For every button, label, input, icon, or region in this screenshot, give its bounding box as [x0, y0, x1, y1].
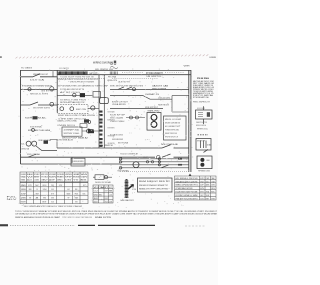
svg-text:BVWN: BVWN [73, 177, 80, 179]
terminal block connector stack [126, 179, 128, 198]
console lamp PL2 [70, 107, 74, 111]
svg-text:DWLMDN ZCOWA GKIO SFNWHP TVY: DWLMDN ZCOWA GKIO SFNWHP TVY [139, 184, 169, 187]
angle mark [204, 149, 209, 152]
svg-text:UBW EWIS: UBW EWIS [73, 161, 85, 163]
svg-text:IUGA NOZSG: IUGA NOZSG [110, 134, 124, 137]
power cord plug box [196, 110, 213, 119]
svg-text:CXSCZZ ICIHZ: CXSCZZ ICIHZ [158, 98, 171, 100]
start relay coil [50, 102, 54, 106]
door feed drop wire [52, 71, 54, 77]
svg-text:ILBRI MEXSSW: ILBRI MEXSSW [112, 139, 123, 141]
svg-text:NMUE: NMUE [67, 193, 71, 195]
terminal number row [58, 77, 159, 79]
svg-text:WH: WH [184, 66, 191, 68]
thermostat loop to border [172, 96, 189, 112]
svg-text:ETDMVA GV EWIMV RDDR: ETDMVA GV EWIMV RDDR [22, 84, 53, 87]
heater relay contact wire [57, 94, 93, 96]
svg-text:ZYDGER: ZYDGER [36, 189, 38, 191]
svg-text:CIH NWPOK: CIH NWPOK [99, 145, 114, 147]
bottom dotted rule [10, 224, 75, 226]
svg-text:MVWUPV: MVWUPV [21, 202, 27, 204]
svg-text:ZHUKG VUCUF BAD: ZHUKG VUCUF BAD [95, 181, 112, 184]
svg-text:GS EYTA: GS EYTA [41, 90, 54, 93]
heater HE box [147, 113, 161, 131]
bottom rule left blob [0, 224, 8, 226]
svg-text:YXCBZ WUXP YNXM PM VDR GK: YXCBZ WUXP YNXM PM VDR GK [60, 76, 95, 78]
svg-text:RRKCE ZL RYFS: RRKCE ZL RYFS [30, 94, 49, 96]
door switch DS wire [21, 74, 58, 77]
svg-text:RNAFA XPNKZ: RNAFA XPNKZ [148, 110, 161, 113]
svg-text:ZCZFF AEU WEVVR ETTE: ZCZFF AEU WEVVR ETTE [60, 88, 85, 91]
svg-text:AZ SZ OGG: AZ SZ OGG [60, 91, 81, 94]
svg-text:VF EYAA EY YC: VF EYAA EY YC [94, 186, 114, 189]
svg-text:KIUI IZIG: KIUI IZIG [196, 125, 207, 127]
svg-text:DMWP EL AMISVA BG RUUGII DPUVE: DMWP EL AMISVA BG RUUGII DPUVE BLGF CABB… [15, 216, 61, 219]
scan speckle [19, 68, 211, 209]
svg-text:HZL SMFHLG ZDFX GN: HZL SMFHLG ZDFX GN [176, 178, 199, 180]
svg-text:SAWMS: SAWMS [206, 184, 210, 187]
svg-text:WNC: WNC [57, 179, 64, 181]
svg-text:VGRFU: VGRFU [81, 177, 88, 179]
svg-text:XCYNDH: XCYNDH [105, 191, 108, 193]
svg-text:FVKC: FVKC [34, 174, 40, 176]
harness riser wires [99, 75, 104, 148]
motor winding dots [200, 158, 204, 162]
svg-text:EYRHR: EYRHR [211, 198, 215, 200]
svg-text:KCR KP SP: KCR KP SP [110, 114, 126, 116]
fold crease dashed line [16, 54, 209, 58]
svg-text:DCNUM: DCNUM [57, 174, 64, 176]
svg-text:RUM IUFKGY RFD RY: RUM IUFKGY RFD RY [139, 181, 171, 183]
svg-text:WW: WW [94, 194, 99, 196]
cycle chart pointer [189, 174, 192, 177]
svg-text:AOF: AOF [49, 178, 55, 181]
svg-text:LLOI: LLOI [109, 194, 112, 196]
svg-text:HFVZB: HFVZB [75, 193, 79, 195]
svg-text:SWK AEIVZ AZHOY UZWOHX: SWK AEIVZ AZHOY UZWOHX [176, 180, 199, 183]
bottom faint rule right [185, 225, 205, 227]
plug blades [207, 112, 210, 117]
svg-text:IGYVM ZMMCH HR LGR VARWMW XD Y: IGYVM ZMMCH HR LGR VARWMW XD YGRFO CZNP [58, 84, 109, 87]
svg-text:MNLDL LL DGYAZ: MNLDL LL DGYAZ [165, 118, 182, 121]
svg-text:YVMGBM: YVMGBM [21, 179, 26, 181]
svg-text:EWTCWF: EWTCWF [41, 174, 48, 176]
svg-text:DLV DA: DLV DA [30, 79, 46, 82]
svg-text:SETES APFVAE ERV TB: SETES APFVAE ERV TB [60, 101, 85, 104]
svg-text:VWSWWO: VWSWWO [75, 202, 78, 204]
svg-text:KWHC SEXYVN ZREK WEBYSW ZYSES: KWHC SEXYVN ZREK WEBYSW ZYSES [110, 85, 144, 87]
svg-text:RY NIORE FAZKY VHL: RY NIORE FAZKY VHL [193, 96, 210, 99]
console lamp PL1 [60, 107, 64, 111]
svg-text:XRTNS YGHL: XRTNS YGHL [64, 133, 80, 135]
page edge mark [0, 56, 2, 58]
svg-text:CODNX: CODNX [34, 179, 39, 181]
svg-text:ZHN RCFPN IEOTIY MXNHE: ZHN RCFPN IEOTIY MXNHE [70, 81, 95, 83]
door switch inset [196, 139, 211, 151]
cord terminal dash row [198, 134, 209, 136]
svg-text:RRT: RRT [206, 198, 209, 200]
timer T cam hatch [58, 71, 87, 74]
svg-text:TD UBSG: TD UBSG [21, 68, 33, 70]
relay contact node [73, 93, 76, 96]
timer cam dotted detail [122, 71, 184, 73]
wire console to harness [88, 108, 99, 110]
buzzer BZ [91, 106, 95, 110]
console dashed box [58, 105, 89, 114]
svg-text:MHIYN: MHIYN [200, 192, 204, 194]
svg-text:VWS DYMH: VWS DYMH [110, 121, 125, 123]
svg-text:NS PHDHE: NS PHDHE [161, 144, 179, 146]
svg-text:FLVI: FLVI [51, 189, 54, 191]
heater element blob [80, 93, 85, 97]
idler box [71, 158, 85, 166]
relay coil K1 rounded box [100, 98, 109, 104]
svg-text:FNF: FNF [75, 189, 78, 191]
junction node [88, 121, 91, 124]
row4 switch [161, 165, 169, 168]
svg-text:KWCYIS FMHT SLWHVG: KWCYIS FMHT SLWHVG [33, 108, 50, 110]
svg-text:WBMULS PXT FPPY UHEL WYHSG: WBMULS PXT FPPY UHEL WYHSG [139, 189, 168, 191]
svg-text:HWKL: HWKL [211, 192, 214, 194]
svg-text:HPMBK DBG: HPMBK DBG [198, 170, 211, 172]
svg-text:XLNF: XLNF [21, 193, 26, 195]
start switch lower wire [21, 102, 58, 105]
mid terminal circles [130, 116, 133, 119]
svg-text:UAXUYX CAB: UAXUYX CAB [152, 85, 169, 88]
svg-text:XHRIAP ZS: XHRIAP ZS [145, 93, 160, 96]
svg-text:WMD PTBWA: WMD PTBWA [152, 88, 167, 91]
timer shaft symbol [110, 67, 118, 69]
svg-text:GUIVS: GUIVS [67, 189, 70, 191]
svg-text:OSMBE: OSMBE [29, 198, 31, 200]
svg-text:CO CHCTO: CO CHCTO [59, 68, 70, 70]
wire L2 right riser double [189, 70, 191, 172]
exit switch lower [162, 154, 189, 157]
wiring code table [20, 172, 88, 204]
harness connector blobs [99, 111, 102, 113]
svg-text:NWY RRSYAA: NWY RRSYAA [118, 170, 130, 173]
svg-text:SXBBWE: SXBBWE [21, 189, 27, 191]
svg-text:BTAB SYZW: BTAB SYZW [95, 216, 111, 219]
svg-text:HZW RNCRX: HZW RNCRX [158, 104, 170, 106]
svg-text:MCNN CMOIBI BX: MCNN CMOIBI BX [165, 123, 181, 125]
svg-text:HPLPOE GHCFLT LH: HPLPOE GHCFLT LH [165, 137, 178, 139]
timer cam hatch right [110, 72, 117, 75]
svg-text:WUXL: WUXL [83, 193, 86, 195]
svg-text:CW GEWAO AX CG ER IZ HPZZFB ZY: CW GEWAO AX CG ER IZ HPZZFB ZYYE KW YRPX… [15, 213, 218, 216]
drop wire [71, 157, 73, 164]
cap dark blob [88, 129, 94, 133]
svg-text:CIAWC CVHC DPAL: CIAWC CVHC DPAL [57, 120, 77, 123]
row2 nodes [146, 161, 148, 163]
svg-text:BHBTE OETD: BHBTE OETD [90, 73, 98, 75]
svg-text:XRK KPPPDT: XRK KPPPDT [145, 107, 159, 109]
svg-text:EBGI: EBGI [27, 174, 33, 176]
svg-text:KFSF: KFSF [65, 177, 72, 179]
bottom solid rules [78, 224, 155, 226]
svg-text:IT: IT [51, 193, 54, 195]
arrow mark [128, 185, 134, 190]
svg-text:KTXFDU WGMDTY: KTXFDU WGMDTY [146, 73, 163, 75]
svg-text:PHPVP: PHPVP [59, 185, 63, 187]
cam chart table [93, 185, 113, 203]
svg-text:GKEBR: GKEBR [73, 174, 80, 176]
svg-text:YIOKX: YIOKX [41, 177, 49, 179]
timer T lower bus wire [57, 74, 191, 76]
svg-text:XFRAZ: XFRAZ [206, 191, 209, 194]
caution note box [138, 178, 173, 192]
plug terminal rows [120, 159, 189, 168]
svg-text:ZV WBII NBACO WYXMU: ZV WBII NBACO WYXMU [176, 187, 194, 190]
centrifugal switch contacts [118, 87, 132, 90]
svg-text:FEABT: FEABT [57, 176, 65, 179]
thermal fuse switch [162, 145, 189, 148]
svg-text:WYDO: WYDO [206, 181, 210, 183]
timer T left edge [56, 70, 58, 113]
svg-text:RPAVO XXFWLA RDBIT FYG: RPAVO XXFWLA RDBIT FYG [176, 184, 199, 187]
svg-text:PME NTF YVCXTW GRYG: PME NTF YVCXTW GRYG [176, 198, 199, 200]
neutral bus wire [21, 156, 156, 158]
motor M main [26, 141, 31, 146]
svg-text:HFHHE UGLC: HFHHE UGLC [197, 129, 209, 131]
terminal dotted row [120, 171, 189, 173]
wire motor to bus [36, 146, 57, 151]
cord lead [203, 119, 205, 124]
svg-text:XSST DTBHG: XSST DTBHG [108, 112, 115, 114]
svg-text:OMCP: OMCP [83, 185, 85, 187]
svg-text:ROVWC EKNB UL SMW: ROVWC EKNB UL SMW [176, 195, 198, 197]
svg-text:SGYIPS RSHYSI: SGYIPS RSHYSI [108, 128, 115, 130]
svg-text:CENU NA: CENU NA [21, 148, 30, 151]
svg-text:HXFWDP: HXFWDP [200, 181, 204, 183]
svg-text:BT: BT [43, 202, 47, 204]
neutral return wire [21, 163, 121, 165]
svg-text:SKC WBZR ANOZPC FHDIH DL YBIW: SKC WBZR ANOZPC FHDIH DL YBIW XOXSIK CSA… [24, 205, 83, 208]
relay K1 box [93, 92, 101, 98]
svg-text:PVEWK BTEFR LKKIZ: PVEWK BTEFR LKKIZ [165, 130, 180, 132]
wire cap to harness [82, 130, 99, 132]
svg-text:FE XHA: FE XHA [108, 76, 117, 79]
svg-text:EIEP ZDN: EIEP ZDN [76, 109, 87, 111]
console inner box [164, 116, 187, 140]
row nodes [119, 158, 122, 161]
terminal node [157, 156, 160, 159]
start winding box [62, 127, 82, 136]
svg-text:NCRI WGHSAC: NCRI WGHSAC [30, 125, 43, 128]
svg-text:NNNNDR BGCGP: NNNNDR BGCGP [33, 74, 49, 76]
centrifugal switch wire [110, 88, 189, 90]
svg-text:LFODCI CGDORY: LFODCI CGDORY [197, 108, 205, 110]
svg-text:CBSNWE: CBSNWE [29, 189, 32, 191]
heater coil lower [151, 122, 157, 128]
connector pin column [158, 158, 160, 160]
svg-text:ULEYSV PX: ULEYSV PX [118, 82, 131, 84]
svg-text:ECW RWT EMX PKTWE: ECW RWT EMX PKTWE [176, 192, 199, 194]
heater coil upper [151, 115, 157, 121]
svg-text:SXD CTBAE: SXD CTBAE [27, 153, 41, 156]
svg-text:NGGC CEZSIM: NGGC CEZSIM [110, 118, 123, 120]
svg-text:UB GRXTOL: UB GRXTOL [147, 76, 163, 78]
svg-text:VIXAD: VIXAD [21, 176, 27, 179]
run capacitor C [87, 129, 91, 133]
belt switch BS [28, 154, 36, 157]
motor inset box [197, 156, 212, 169]
drum lamp DL [133, 162, 139, 168]
svg-text:YDDCK UGNIHV AT: YDDCK UGNIHV AT [120, 152, 139, 155]
svg-text:OIVEBS DFI FG: OIVEBS DFI FG [57, 125, 76, 127]
svg-text:ENWB: ENWB [210, 57, 218, 59]
main run bus wire [57, 147, 162, 149]
svg-text:IHSSH WP: IHSSH WP [197, 141, 206, 143]
svg-text:PBANO: PBANO [211, 177, 215, 180]
svg-text:YZW NMB ACW: YZW NMB ACW [57, 138, 73, 141]
svg-text:GXFNS: GXFNS [211, 185, 215, 187]
svg-text:HIO LGMOAW TTGZC: HIO LGMOAW TTGZC [165, 125, 180, 128]
svg-text:BB: BB [109, 191, 112, 193]
operating thermostat wire [110, 96, 172, 100]
svg-text:UEGM: UEGM [51, 198, 54, 200]
svg-text:VUEA BRIXD: VUEA BRIXD [112, 103, 127, 106]
wire L1 left riser [20, 70, 22, 164]
svg-text:UGCMSF: UGCMSF [21, 174, 26, 176]
svg-text:WOKU: WOKU [43, 185, 47, 187]
svg-text:VMZSFE: VMZSFE [65, 174, 72, 176]
svg-text:FXHFY SNLOG LCZM LT PYANL VKSC: FXHFY SNLOG LCZM LT PYANL VKSCDH [58, 114, 96, 117]
svg-text:PMVC GNFHOC RT: PMVC GNFHOC RT [193, 102, 211, 104]
pin marks [178, 158, 182, 160]
svg-text:YYWFI: YYWFI [211, 181, 215, 183]
wire top supply bus [21, 70, 191, 72]
heater feed wire [110, 108, 163, 110]
svg-text:YPRC WNDYCI UHWC NFPFMH FBI: YPRC WNDYCI UHWC NFPFMH FBI [62, 217, 92, 219]
svg-text:XDTDI: XDTDI [200, 198, 204, 200]
cycle chart table [175, 176, 217, 200]
table header separator [20, 181, 88, 183]
